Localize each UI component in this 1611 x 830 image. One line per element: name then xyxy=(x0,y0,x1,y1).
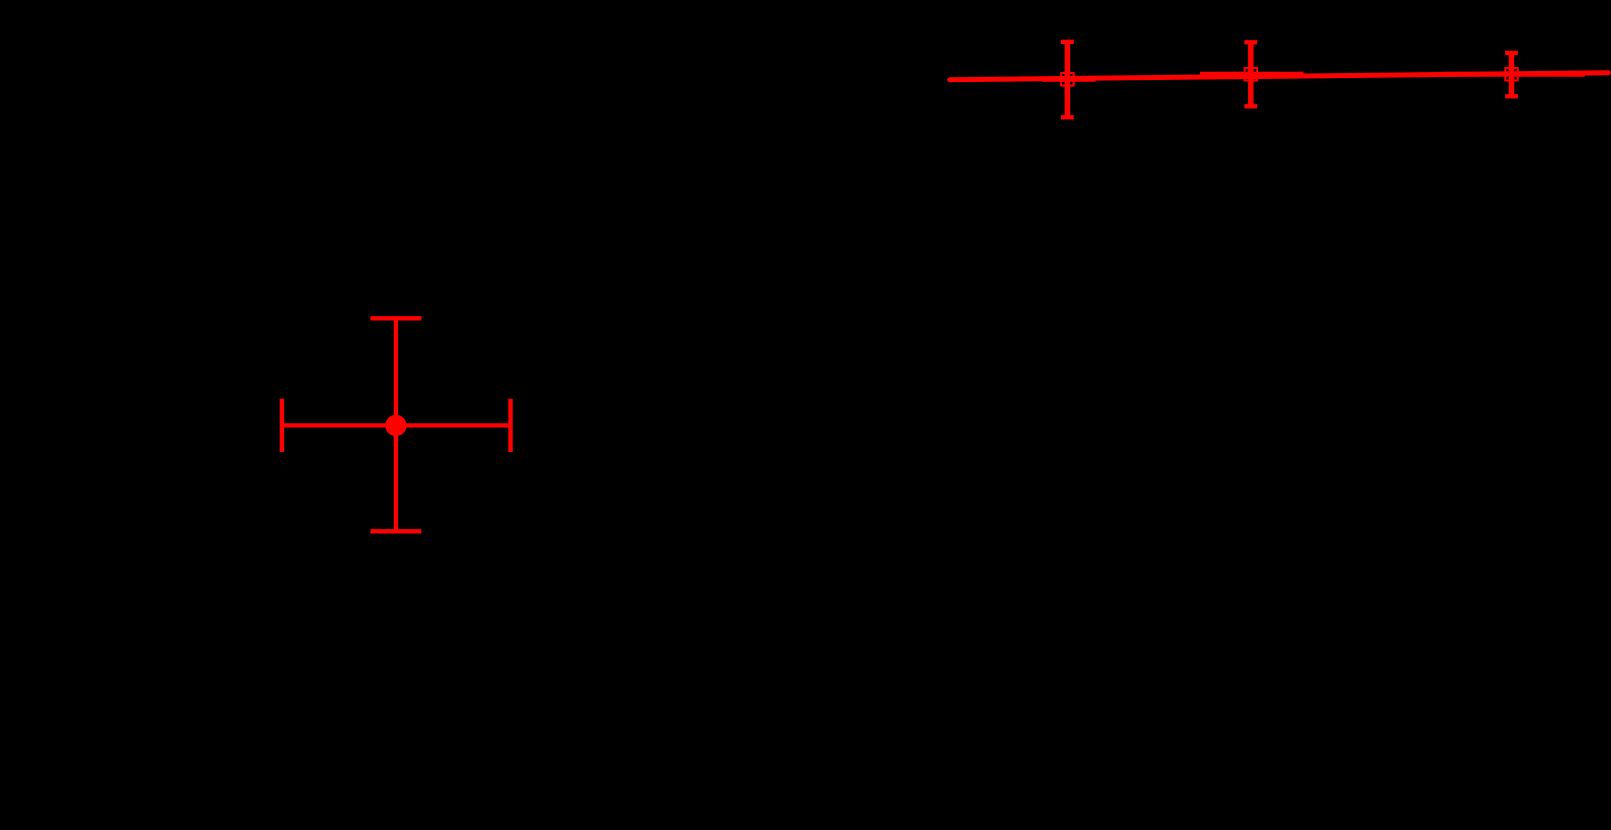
point P0 x error left cap xyxy=(280,399,284,452)
point M2 x error bar xyxy=(1200,72,1304,77)
point M2 y error top cap xyxy=(1244,40,1257,44)
point M3 open square marker xyxy=(1505,68,1518,81)
point M2 y error bottom cap xyxy=(1244,104,1257,108)
point M3 y error top cap xyxy=(1505,51,1518,55)
point P0 circle marker xyxy=(385,415,406,436)
point M1 x error bar xyxy=(1042,77,1096,82)
point M1 y error top cap xyxy=(1061,40,1074,44)
point M3 x error bar xyxy=(1442,72,1585,77)
point P0 x error right cap xyxy=(508,399,512,452)
point M3 y error bar xyxy=(1509,53,1515,96)
point P0 y error top cap xyxy=(370,316,421,320)
point P0 y error bar xyxy=(394,318,398,531)
point M1 y error bar xyxy=(1065,42,1071,118)
point M2 y error bar xyxy=(1248,42,1254,106)
point P0 x error bar xyxy=(282,423,511,427)
point M1 y error bottom cap xyxy=(1061,115,1074,119)
point M3 y error bottom cap xyxy=(1505,94,1518,98)
point M1 open square marker xyxy=(1061,73,1074,86)
point P0 y error bottom cap xyxy=(370,529,421,533)
fit line xyxy=(950,73,1609,80)
point M2 open square marker xyxy=(1245,68,1258,81)
